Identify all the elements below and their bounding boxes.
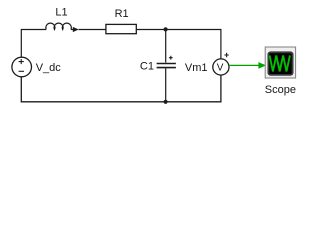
wire resistor to voltmeter top — [136, 30, 221, 60]
capacitor C1 — [140, 30, 176, 102]
wire source top to inductor — [21, 30, 46, 58]
node junction top — [164, 27, 168, 31]
voltmeter Vm1 — [185, 53, 229, 75]
signal wire voltmeter to scope — [229, 62, 266, 69]
wire inductor to resistor — [79, 29, 106, 31]
inductor L1 — [46, 7, 79, 32]
svg-text:V: V — [217, 63, 224, 74]
svg-text:L1: L1 — [55, 7, 67, 19]
svg-text:Scope: Scope — [265, 84, 296, 96]
svg-text:C1: C1 — [140, 61, 154, 73]
node junction bottom — [164, 100, 168, 104]
voltage source V_dc — [12, 57, 61, 77]
wire bottom rail to voltmeter bottom — [166, 75, 221, 102]
svg-text:V_dc: V_dc — [36, 62, 62, 74]
scope block — [265, 47, 296, 96]
svg-text:R1: R1 — [115, 8, 129, 20]
svg-text:Vm1: Vm1 — [185, 62, 208, 74]
resistor R1 — [106, 8, 136, 34]
wire source bottom to bottom rail — [21, 77, 165, 102]
